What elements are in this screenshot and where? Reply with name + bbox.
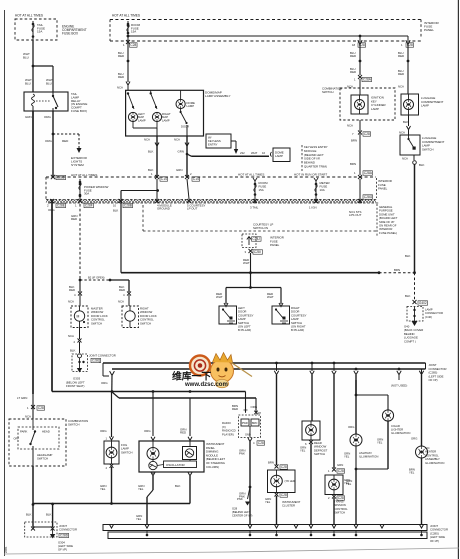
svg-text:BRN: BRN — [351, 139, 357, 143]
svg-text:SWITCH IN: SWITCH IN — [253, 226, 268, 230]
svg-text:C28: C28 — [130, 43, 136, 47]
svg-text:C28E: C28E — [57, 204, 65, 208]
svg-text:BLK: BLK — [419, 163, 425, 167]
svg-text:C28: C28 — [407, 43, 413, 47]
svg-text:BLK: BLK — [405, 294, 411, 298]
svg-text:SWITCH: SWITCH — [334, 511, 345, 515]
svg-text:ENTRY: ENTRY — [208, 142, 218, 146]
svg-text:C14: C14 — [161, 177, 167, 181]
svg-text:ORG: ORG — [251, 405, 258, 409]
svg-text:www.dzsc.com: www.dzsc.com — [184, 382, 228, 388]
svg-text:C28A: C28A — [364, 171, 373, 175]
svg-text:1 IGN: 1 IGN — [309, 206, 317, 210]
svg-text:RED: RED — [69, 288, 75, 292]
svg-text:RED: RED — [118, 75, 124, 79]
svg-text:BLK: BLK — [46, 513, 52, 517]
svg-text:YEL: YEL — [138, 487, 144, 491]
svg-text:HOT AT ALL TIMES: HOT AT ALL TIMES — [112, 14, 140, 18]
svg-text:LAMP: LAMP — [275, 154, 283, 158]
svg-text:LT GRN: LT GRN — [17, 396, 27, 400]
svg-text:LAMP: LAMP — [421, 104, 429, 108]
svg-text:FUSE PANEL): FUSE PANEL) — [379, 231, 397, 235]
svg-text:RED: RED — [118, 54, 124, 58]
svg-text:BLK: BLK — [175, 484, 181, 488]
svg-text:SWITCH: SWITCH — [422, 147, 433, 151]
svg-text:HOT IN RUN OR START: HOT IN RUN OR START — [294, 173, 327, 177]
svg-text:RED: RED — [71, 217, 77, 221]
svg-text:10: 10 — [113, 204, 117, 208]
svg-text:C28G: C28G — [364, 195, 373, 199]
svg-text:15A: 15A — [131, 30, 136, 34]
svg-text:COLUMN): COLUMN) — [206, 465, 219, 469]
svg-text:SWITCH: SWITCH — [322, 90, 333, 94]
svg-text:B PILLAR): B PILLAR) — [291, 328, 304, 332]
svg-text:PANEL: PANEL — [378, 187, 388, 191]
svg-text:FUSE BOX: FUSE BOX — [62, 32, 79, 36]
svg-text:WHT: WHT — [216, 295, 223, 299]
svg-text:BLU: BLU — [23, 55, 29, 59]
svg-text:PWR: PWR — [242, 422, 248, 425]
svg-text:LAMP: LAMP — [371, 107, 379, 111]
svg-text:OFF: OFF — [14, 437, 20, 441]
svg-text:30A: 30A — [84, 192, 89, 196]
svg-text:C28J: C28J — [252, 237, 260, 241]
svg-text:HEAD: HEAD — [42, 430, 50, 434]
svg-text:BLK: BLK — [26, 513, 32, 517]
svg-text:RED: RED — [232, 407, 238, 411]
svg-text:C28: C28 — [38, 406, 44, 410]
svg-text:LP OUT: LP OUT — [187, 207, 198, 211]
svg-text:OF I/P): OF I/P) — [430, 539, 439, 543]
svg-text:BLU: BLU — [46, 81, 52, 85]
svg-text:10A: 10A — [320, 188, 325, 192]
svg-text:3 TAIL: 3 TAIL — [250, 206, 259, 210]
svg-text:C28: C28 — [338, 469, 344, 473]
svg-text:RED: RED — [350, 54, 356, 58]
svg-text:YEL: YEL — [265, 500, 271, 504]
svg-text:232: 232 — [240, 151, 245, 155]
svg-text:SWITCH: SWITCH — [68, 423, 79, 427]
svg-text:G28: G28 — [232, 507, 238, 511]
svg-text:BLK: BLK — [403, 120, 409, 124]
svg-text:18: 18 — [352, 43, 356, 47]
svg-text:SWITCH: SWITCH — [37, 457, 48, 461]
svg-text:(BEHIND LEFT: (BEHIND LEFT — [232, 510, 251, 514]
svg-text:15A: 15A — [37, 30, 42, 34]
svg-text:YEL: YEL — [300, 449, 306, 453]
svg-text:16: 16 — [262, 151, 266, 155]
svg-text:BRN: BRN — [252, 422, 257, 425]
svg-text:NCA: NCA — [118, 300, 124, 304]
svg-text:NCA: NCA — [68, 300, 74, 304]
svg-text:ORG: ORG — [101, 381, 108, 385]
svg-text:PARK: PARK — [20, 430, 28, 434]
svg-text:BLK: BLK — [113, 209, 118, 213]
svg-text:ORG: ORG — [411, 437, 417, 441]
svg-text:B2 (IF OPEN): B2 (IF OPEN) — [88, 276, 105, 280]
svg-text:YEL: YEL — [136, 517, 142, 521]
svg-text:PANEL: PANEL — [424, 28, 434, 32]
svg-text:JOINT CONNECTOR: JOINT CONNECTOR — [89, 354, 116, 358]
svg-text:ORG: ORG — [144, 429, 151, 433]
svg-text:RED: RED — [180, 431, 186, 435]
svg-text:BRN: BRN — [350, 162, 356, 166]
svg-text:SWITCH: SWITCH — [121, 450, 132, 454]
svg-text:B PILLAR): B PILLAR) — [238, 328, 251, 332]
svg-text:C28D: C28D — [60, 534, 69, 538]
svg-text:22B1: 22B1 — [4, 546, 8, 553]
svg-text:M: M — [77, 315, 80, 319]
svg-text:BLK: BLK — [70, 349, 76, 353]
svg-text:HOT AT ALL TIMES: HOT AT ALL TIMES — [71, 173, 97, 177]
svg-text:LAMP: LAMP — [187, 104, 195, 108]
svg-text:PNK: PNK — [239, 452, 245, 456]
svg-text:OF I/P): OF I/P) — [58, 548, 67, 552]
svg-text:CLUSTER: CLUSTER — [282, 504, 295, 508]
svg-text:NCA: NCA — [398, 85, 404, 89]
svg-text:OF I/P): OF I/P) — [429, 378, 438, 382]
svg-text:GRN: GRN — [178, 150, 184, 154]
svg-text:C28: C28 — [258, 441, 264, 445]
svg-text:C28B: C28B — [124, 204, 132, 208]
svg-text:维库一下: 维库一下 — [172, 370, 211, 383]
svg-text:RED: RED — [350, 70, 356, 74]
svg-text:SWITCH: SWITCH — [91, 321, 102, 325]
svg-text:ORG: ORG — [44, 115, 52, 119]
svg-text:PNK: PNK — [237, 497, 243, 501]
svg-text:HOT AT ALL TIMES: HOT AT ALL TIMES — [15, 14, 43, 18]
svg-text:RED: RED — [398, 54, 404, 58]
svg-text:ORG: ORG — [348, 425, 354, 429]
svg-text:C28F: C28F — [85, 204, 93, 208]
svg-text:WHT: WHT — [267, 295, 274, 299]
svg-text:C14: C14 — [193, 177, 199, 181]
svg-text:GRN: GRN — [25, 115, 32, 119]
svg-text:YEL: YEL — [346, 482, 352, 486]
svg-text:PLAYER): PLAYER) — [222, 432, 234, 436]
svg-text:C28A: C28A — [363, 78, 372, 82]
svg-text:ORG: ORG — [100, 429, 107, 433]
svg-text:(7/0 LED): (7/0 LED) — [285, 479, 296, 483]
svg-text:SYSTEM: SYSTEM — [71, 163, 84, 167]
svg-text:C28: C28 — [281, 465, 287, 469]
svg-text:ILLUMINATION: ILLUMINATION — [391, 431, 410, 435]
svg-text:ILLUMINATION: ILLUMINATION — [359, 455, 378, 459]
svg-text:OSCILLATOR: OSCILLATOR — [166, 463, 186, 467]
svg-text:BLK: BLK — [405, 254, 411, 258]
svg-text:BLU: BLU — [25, 81, 31, 85]
svg-text:RED: RED — [62, 139, 69, 143]
svg-text:NCA: NCA — [174, 138, 180, 142]
svg-text:NCA: NCA — [25, 415, 31, 419]
svg-text:C281: C281 — [57, 176, 65, 180]
svg-text:(C40): (C40) — [425, 315, 432, 319]
svg-text:C28: C28 — [281, 493, 287, 497]
svg-text:WHT: WHT — [243, 261, 250, 265]
svg-text:NCA: NCA — [68, 334, 74, 338]
svg-text:LAMP ASSEMBLY: LAMP ASSEMBLY — [205, 94, 231, 98]
svg-text:FUSE BOX): FUSE BOX) — [71, 109, 87, 113]
svg-text:NCA: NCA — [399, 131, 405, 135]
svg-text:LPS OUT: LPS OUT — [349, 213, 362, 217]
svg-text:QUARTER TRIM): QUARTER TRIM) — [304, 165, 327, 169]
svg-text:BLK: BLK — [148, 150, 154, 154]
svg-text:RED: RED — [119, 288, 125, 292]
svg-text:RED: RED — [398, 72, 404, 76]
svg-text:NCA: NCA — [144, 138, 150, 142]
svg-text:YEL: YEL — [344, 455, 350, 459]
svg-text:ORG: ORG — [45, 139, 53, 143]
svg-text:SWITCH: SWITCH — [140, 321, 151, 325]
svg-text:C28I: C28I — [254, 250, 261, 254]
svg-text:G402: G402 — [419, 301, 427, 305]
svg-text:SWITCH: SWITCH — [314, 452, 325, 456]
svg-text:YEL: YEL — [377, 441, 383, 445]
svg-text:(NOT USED): (NOT USED) — [391, 384, 407, 388]
svg-text:HOT AT ALL TIMES: HOT AT ALL TIMES — [238, 173, 264, 177]
svg-text:GROUND: GROUND — [157, 207, 170, 211]
svg-text:ILLUMINATION: ILLUMINATION — [425, 461, 444, 465]
svg-text:BRN: BRN — [394, 268, 400, 272]
svg-text:GRN: GRN — [337, 463, 343, 467]
svg-text:GRN: GRN — [176, 168, 182, 172]
svg-text:DOOR: DOOR — [181, 125, 189, 129]
svg-text:YEL: YEL — [100, 487, 106, 491]
svg-text:FRONT SEAT): FRONT SEAT) — [66, 384, 84, 388]
svg-text:C28Q: C28Q — [92, 359, 101, 363]
svg-text:WHT: WHT — [251, 151, 258, 155]
svg-text:PANEL: PANEL — [270, 243, 280, 247]
svg-text:LAMP: LAMP — [138, 118, 146, 122]
svg-text:NCA: NCA — [347, 124, 353, 128]
svg-text:CONNECTOR: CONNECTOR — [59, 528, 77, 532]
svg-text:NCA: NCA — [117, 86, 123, 90]
svg-text:C28: C28 — [359, 43, 365, 47]
svg-text:COMPT ): COMPT ) — [404, 339, 416, 343]
svg-text:15A: 15A — [259, 188, 264, 192]
svg-text:C28: C28 — [364, 132, 370, 136]
svg-text:BRN: BRN — [268, 461, 274, 465]
svg-text:NCA: NCA — [402, 157, 408, 161]
svg-text:LAMP: LAMP — [162, 118, 170, 122]
svg-text:YEL: YEL — [409, 471, 415, 475]
